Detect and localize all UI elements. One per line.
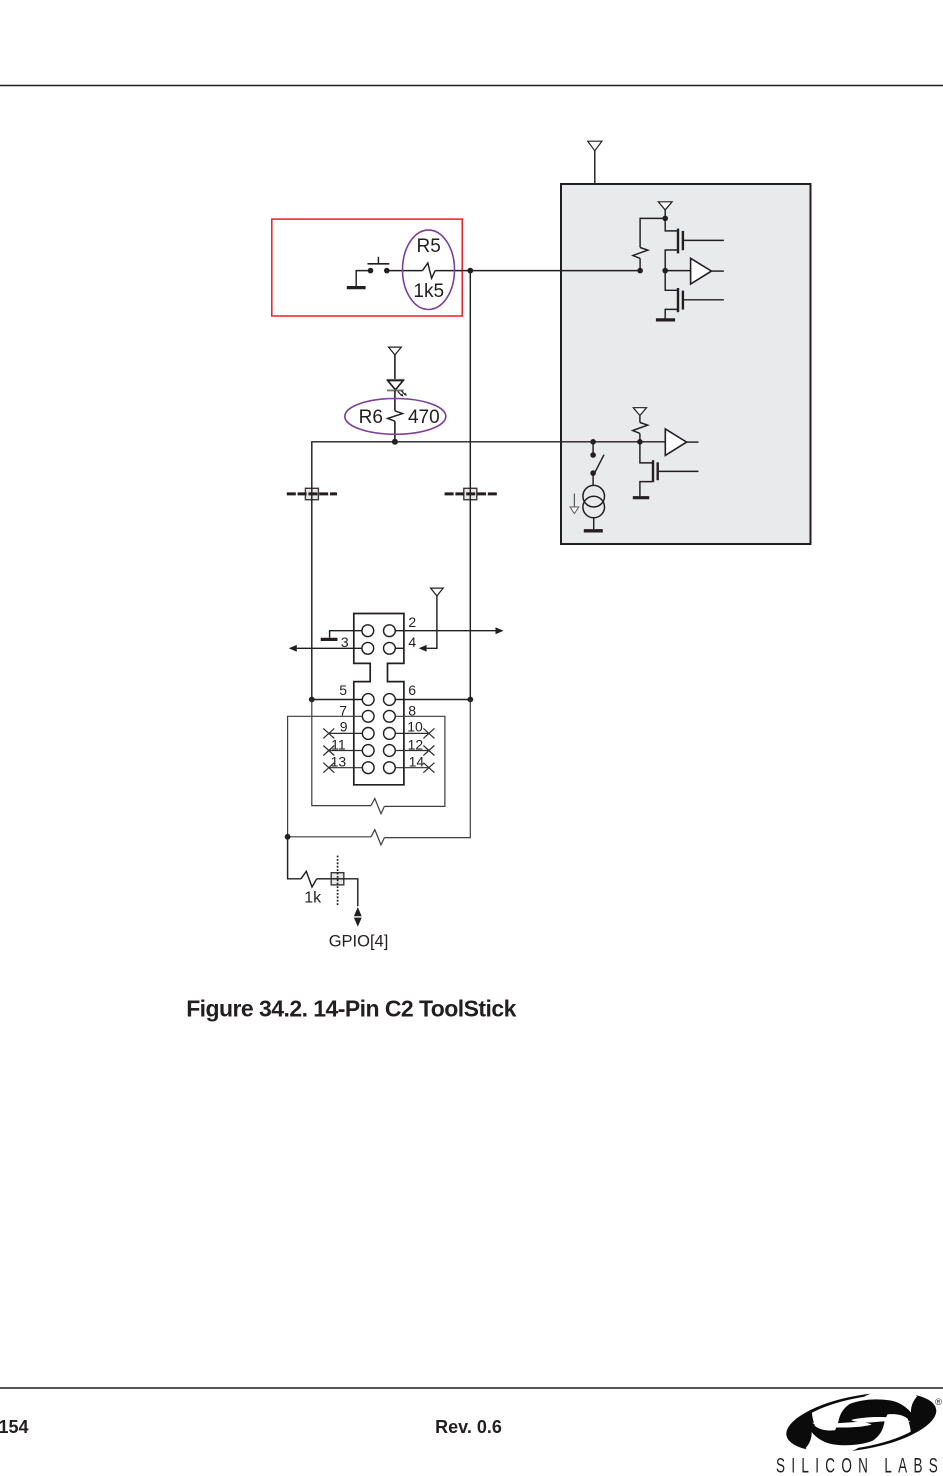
pin 11 no-connect wire [329, 750, 363, 752]
node F (R6 bottom) [392, 439, 398, 445]
label 2 [408, 614, 416, 630]
pin 5 wire [312, 699, 363, 701]
resistor R6 (zigzag) [388, 411, 403, 421]
wire switch to R5 [387, 270, 423, 272]
pull-up resistor (bottom cell) [633, 423, 648, 434]
red highlight box (switch circuit) [272, 219, 462, 316]
svg-text:2: 2 [408, 614, 416, 630]
wire node A down to pin 6 [469, 271, 471, 700]
buffer U2 (bottom cell) [665, 429, 686, 456]
svg-text:10: 10 [407, 719, 423, 735]
svg-text:1k5: 1k5 [413, 281, 444, 302]
connector body (14-pin header) [354, 614, 404, 785]
svg-text:Rev. 0.6: Rev. 0.6 [435, 1417, 502, 1437]
wire resistor to node [639, 433, 641, 441]
wire R6 node to bottom cell [395, 441, 665, 443]
wire VDD to node [664, 210, 666, 219]
pin 6 circle [384, 694, 396, 706]
label 6 [408, 682, 416, 698]
board edge jumper (right) [445, 488, 497, 501]
pin 10 no-connect wire [395, 732, 429, 734]
wire ground to switch [356, 271, 370, 287]
pin 12 no-connect wire [395, 750, 429, 752]
Silicon Labs logo swoosh [782, 1383, 941, 1463]
X mark pin 13 [323, 763, 334, 773]
label 5 [339, 682, 347, 698]
svg-text:13: 13 [331, 754, 347, 770]
label 470 [408, 407, 440, 428]
board edge jumper (GPIO) [331, 856, 344, 906]
label 3 [341, 634, 349, 650]
svg-text:GPIO[4]: GPIO[4] [329, 932, 389, 950]
svg-text:SILICON LABS: SILICON LABS [776, 1453, 942, 1476]
X mark pin 14 [423, 763, 434, 773]
VDD symbol (pin 4) [431, 588, 444, 596]
VDD symbol (LED) [389, 347, 402, 355]
node A (R5 output junction) [467, 268, 473, 274]
X mark pin 10 [423, 728, 434, 738]
wire R6 to node [394, 421, 396, 442]
arrow into pin 4 [419, 645, 427, 652]
label 9 [340, 719, 348, 735]
label 1k5 [413, 281, 444, 302]
svg-text:®: ® [935, 1397, 942, 1408]
label R6 [359, 407, 383, 428]
bidirectional arrow (GPIO) [354, 907, 362, 927]
pin 4 stub [395, 647, 404, 649]
wire VDD to resistor [639, 416, 641, 423]
wire buffer output [711, 270, 724, 272]
wire VDD to LED [394, 355, 396, 380]
label 7 [339, 703, 347, 719]
wire node to buffer [665, 270, 690, 272]
current direction arrow [570, 494, 579, 514]
pin 8 circle [384, 710, 396, 722]
IC block (gray box) [561, 184, 811, 544]
pin 13 circle [362, 762, 374, 774]
VDD supply symbol (top) [588, 141, 602, 151]
wire resistor to input node [639, 258, 641, 270]
svg-text:154: 154 [0, 1417, 29, 1437]
transistor Q3 (NMOS, bottom cell) [640, 442, 699, 497]
logo text SILICON LABS [776, 1453, 942, 1476]
ground (top cell) [656, 318, 675, 321]
resistor 1k (zigzag) [301, 871, 317, 887]
pin 3 wire with arrow [289, 645, 362, 652]
resistor R5 (zigzag) [423, 263, 436, 278]
label R5 [417, 236, 441, 257]
X mark pin 11 [323, 746, 334, 756]
logo registered mark [935, 1397, 942, 1408]
board edge jumper (left) [287, 488, 337, 501]
pin 1 circle [362, 625, 374, 637]
ground (pin 1) [321, 638, 338, 641]
label 8 [408, 703, 416, 719]
X mark pin 9 [323, 728, 334, 738]
pin 14 no-connect wire [395, 767, 429, 769]
wire switch to current source [592, 473, 594, 485]
wire route pin5 to pin8 (with cable break) [312, 700, 445, 814]
pin 3 circle [362, 642, 374, 654]
pin 7 circle [362, 710, 374, 722]
label 1k [304, 890, 322, 907]
label GPIO[4] [329, 932, 389, 950]
node B (pull-up to line) [637, 268, 643, 274]
ground (bottom cell NMOS) [633, 496, 649, 499]
transistor Q1 (PMOS, top cell) [665, 218, 724, 270]
pull-up resistor (top cell) [633, 248, 648, 259]
push-button switch S1 [368, 257, 390, 274]
svg-text:4: 4 [408, 634, 416, 650]
node pin 6 [467, 697, 473, 703]
svg-text:R5: R5 [417, 236, 441, 257]
pin 9 circle [362, 728, 374, 740]
pin 6 wire [395, 699, 470, 701]
wire route pin7 to pin6/GPIO (with cable break) [288, 700, 471, 845]
node D (bottom cell input) [637, 439, 643, 445]
ground (current source) [584, 529, 603, 532]
node E (switch top) [590, 439, 596, 445]
purple ellipse around R5 [403, 230, 455, 309]
wire node F left and down to pin 5 [312, 442, 395, 700]
X mark pin 12 [423, 746, 434, 756]
page number 154 [0, 1417, 29, 1437]
svg-text:Figure 34.2. 14-Pin C2 ToolSti: Figure 34.2. 14-Pin C2 ToolStick [186, 996, 516, 1022]
wire 1k to jumper [317, 878, 332, 880]
wire VDD down to pin 4 arrow [427, 596, 437, 648]
pin 14 circle [384, 762, 396, 774]
wire LED to R6 [394, 390, 396, 410]
svg-text:5: 5 [339, 682, 347, 698]
ground (push-button) [347, 286, 366, 289]
VDD symbol (top cell) [658, 202, 672, 210]
wire node A to IC input [470, 270, 640, 272]
svg-text:R6: R6 [359, 407, 383, 428]
figure caption [186, 996, 516, 1022]
wire R5 to node [435, 270, 470, 272]
VDD symbol (bottom cell) [633, 408, 646, 416]
label 11 [331, 736, 346, 752]
pin 2 circle [384, 625, 396, 637]
pin 5 circle [362, 694, 374, 706]
svg-text:1k: 1k [304, 890, 322, 907]
pin 10 circle [384, 728, 396, 740]
label 14 [409, 754, 425, 770]
label 12 [408, 736, 424, 752]
current source I1 [583, 485, 605, 517]
label 10 [407, 719, 423, 735]
wire current source to ground [593, 518, 595, 529]
pin 12 circle [384, 745, 396, 757]
purple ellipse around R6 [345, 399, 446, 435]
svg-text:14: 14 [409, 754, 425, 770]
pin 11 circle [362, 745, 374, 757]
node VDD top cell [662, 216, 668, 222]
pin 2 wire with arrow [395, 627, 503, 634]
pin 9 no-connect wire [329, 732, 363, 734]
wire buffer output (bottom) [687, 441, 699, 443]
footer rule [0, 1387, 943, 1389]
pin 13 no-connect wire [329, 767, 363, 769]
svg-text:470: 470 [408, 407, 440, 428]
wire to pull-up resistor [640, 218, 665, 247]
buffer U1 (top cell) [691, 258, 712, 284]
wire VDD to IC block [594, 151, 596, 184]
switch (bottom cell) [590, 442, 604, 476]
label 4 [408, 634, 416, 650]
node pin 5 [309, 697, 315, 703]
header rule [0, 85, 943, 87]
pin 1 ground wire [330, 631, 362, 638]
svg-text:6: 6 [408, 682, 416, 698]
node G (GPIO junction) [285, 834, 291, 840]
pin 4 circle [384, 642, 396, 654]
label 13 [331, 754, 347, 770]
node C (inverter output) [662, 268, 668, 274]
wire node G to 1k resistor [288, 837, 301, 879]
wire jumper to GPIO arrow [344, 879, 358, 906]
svg-text:9: 9 [340, 719, 348, 735]
LED D1 [387, 380, 407, 397]
transistor Q2 (NMOS, top cell) [665, 271, 724, 319]
footer Rev. 0.6 [435, 1417, 502, 1437]
